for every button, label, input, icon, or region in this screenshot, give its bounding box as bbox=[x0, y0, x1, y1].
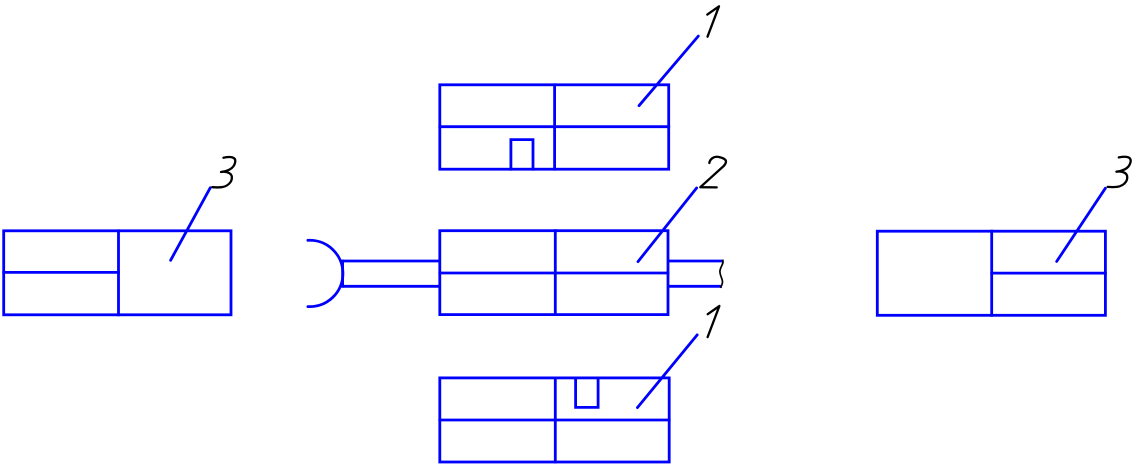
left block vertical divider bbox=[117, 229, 120, 316]
label digit 2 bbox=[700, 157, 726, 188]
leader line to label 1 (top) bbox=[639, 36, 698, 106]
bottom block key notch bbox=[576, 377, 599, 408]
middle block horizontal divider bbox=[438, 272, 669, 275]
fork end cap line bbox=[341, 260, 344, 288]
left rod bottom line bbox=[343, 285, 440, 288]
middle block vertical divider bbox=[554, 229, 557, 316]
right rod top line bbox=[668, 260, 722, 263]
bottom block vertical divider bbox=[554, 377, 557, 464]
middle block (electrode) outline bbox=[440, 231, 668, 315]
left rod top line bbox=[343, 260, 440, 263]
leader line to label 3 (left) bbox=[171, 188, 211, 261]
leader line to label 2 bbox=[638, 188, 697, 262]
top block vertical divider bbox=[553, 83, 556, 170]
leader line to label 1 (bottom) bbox=[637, 335, 697, 408]
right block half horizontal line bbox=[990, 272, 1107, 275]
bottom roller block outline bbox=[440, 378, 669, 462]
label digit 3 (left) bbox=[212, 157, 235, 187]
left block half horizontal line bbox=[2, 271, 120, 274]
left clamp block outline bbox=[4, 231, 231, 315]
right rod bottom line bbox=[668, 285, 722, 288]
right clamp block outline bbox=[877, 231, 1105, 315]
fork arc bbox=[308, 240, 343, 306]
top block key notch bbox=[511, 140, 533, 171]
top roller block outline bbox=[440, 85, 669, 169]
label digit 3 (right) bbox=[1108, 157, 1131, 187]
top block horizontal divider bbox=[438, 125, 670, 128]
leader line to label 3 (right) bbox=[1057, 188, 1106, 261]
bottom block horizontal divider bbox=[438, 419, 670, 422]
label digit 1 (top) bbox=[707, 6, 719, 36]
right block vertical divider bbox=[990, 230, 993, 317]
label digit 1 (bottom) bbox=[708, 306, 720, 337]
break squiggle at rod end bbox=[720, 260, 723, 288]
